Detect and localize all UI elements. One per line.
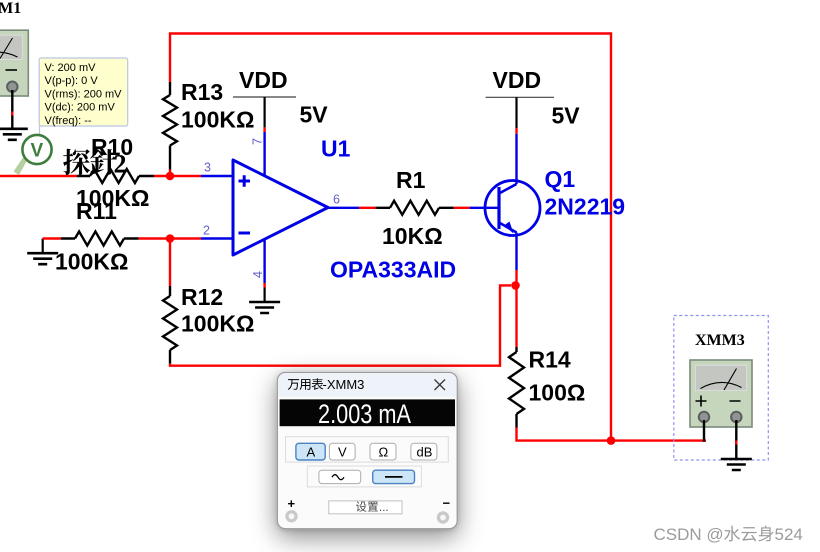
svg-text:100Ω: 100Ω bbox=[529, 380, 586, 406]
XMM3 selection box bbox=[674, 316, 769, 461]
svg-text:...: ... bbox=[379, 502, 389, 514]
watermark CSDN bbox=[654, 525, 803, 544]
node junction dot R11/R12 bbox=[166, 234, 175, 243]
dialog display 2.003 mA bbox=[280, 399, 455, 426]
ground at R11 left bbox=[42, 239, 44, 254]
svg-text:V: 200 mV: V: 200 mV bbox=[45, 62, 97, 74]
power VDD bar (op-amp) bbox=[233, 96, 296, 98]
svg-text:V: V bbox=[31, 141, 44, 162]
button V bbox=[329, 443, 355, 460]
button dB bbox=[411, 443, 437, 460]
svg-text:dB: dB bbox=[417, 445, 433, 460]
wire op-amp pin2 bbox=[201, 237, 233, 239]
svg-text:2.003 mA: 2.003 mA bbox=[318, 399, 411, 429]
wire R12 bottom to Q1 emitter node bbox=[170, 285, 511, 365]
wire op-amp pin3 bbox=[201, 175, 233, 177]
svg-text:7: 7 bbox=[251, 138, 265, 145]
svg-text:6: 6 bbox=[333, 193, 340, 207]
label probe name 探针2 bbox=[63, 149, 126, 179]
node junction dot emitter bbox=[511, 281, 520, 290]
resistor R12 bbox=[163, 239, 177, 364]
resistor R11 bbox=[43, 232, 201, 246]
dialog mode group bbox=[286, 437, 449, 462]
svg-text:VDD: VDD bbox=[493, 67, 542, 93]
svg-text:2: 2 bbox=[203, 224, 210, 238]
dialog signal group bbox=[307, 466, 421, 487]
svg-text:V: V bbox=[338, 445, 347, 460]
svg-text:R1: R1 bbox=[396, 167, 426, 193]
power VDD bar (Q1 collector) bbox=[486, 96, 554, 98]
node junction dot R10/R13 bbox=[166, 172, 175, 181]
multimeter XMM1 body (partially off-canvas) bbox=[0, 30, 28, 96]
svg-text:524: 524 bbox=[775, 525, 803, 544]
svg-text:V(p-p): 0 V: V(p-p): 0 V bbox=[45, 75, 99, 87]
button A (selected) bbox=[296, 443, 325, 460]
wire op-amp pin4 to ground bbox=[263, 239, 265, 302]
svg-text:100KΩ: 100KΩ bbox=[181, 107, 254, 133]
svg-text:R13: R13 bbox=[181, 79, 223, 105]
button AC bbox=[319, 470, 361, 483]
svg-text:5V: 5V bbox=[552, 103, 581, 129]
svg-text:R10: R10 bbox=[91, 134, 133, 160]
svg-text:XMM3: XMM3 bbox=[695, 332, 745, 349]
wire Q1 base bbox=[470, 207, 499, 209]
svg-text:2N2219: 2N2219 bbox=[545, 194, 626, 220]
svg-text:VDD: VDD bbox=[239, 67, 288, 93]
svg-text:V(dc): 200 mV: V(dc): 200 mV bbox=[45, 102, 116, 114]
svg-text:V(freq): --: V(freq): -- bbox=[45, 115, 92, 127]
wire XMM3 - terminal to ground bbox=[735, 420, 737, 459]
ground (op-amp pin4) bbox=[249, 302, 280, 313]
button Ohm bbox=[370, 443, 396, 460]
multimeter XMM3 body bbox=[690, 360, 752, 427]
resistor R13 bbox=[163, 82, 177, 176]
svg-text:+: + bbox=[288, 496, 296, 511]
svg-text:R12: R12 bbox=[181, 284, 223, 310]
instrument dialog 万用表-XMM3 bbox=[277, 373, 457, 529]
node junction dot bottom rail bbox=[607, 436, 616, 445]
wire op-amp pin6 output bbox=[328, 207, 359, 209]
probe measurement tooltip bbox=[39, 58, 128, 127]
svg-text:2: 2 bbox=[114, 150, 127, 179]
svg-text:3: 3 bbox=[204, 161, 211, 175]
svg-text:10KΩ: 10KΩ bbox=[382, 223, 443, 249]
resistor R1 bbox=[359, 201, 470, 215]
button DC (selected) bbox=[373, 470, 415, 483]
svg-text:R14: R14 bbox=[529, 347, 571, 373]
svg-text:100KΩ: 100KΩ bbox=[181, 311, 254, 337]
svg-text:V(rms): 200 mV: V(rms): 200 mV bbox=[45, 88, 123, 100]
svg-text:CSDN @: CSDN @ bbox=[654, 525, 724, 544]
dialog settings button 设置... bbox=[329, 501, 402, 514]
svg-text:A: A bbox=[307, 445, 316, 460]
svg-text:XMM1: XMM1 bbox=[0, 0, 21, 17]
svg-text:-XMM3: -XMM3 bbox=[323, 377, 365, 392]
svg-text:R11: R11 bbox=[76, 198, 117, 224]
wire Q1 collector supply bbox=[515, 97, 517, 184]
wire VDD-rail top loop from R13 top to right vertical down to bottom node bbox=[170, 34, 611, 441]
wire XMM3 + terminal bbox=[703, 420, 705, 442]
probe 探针2 voltage probe icon bbox=[14, 135, 52, 175]
svg-text:5V: 5V bbox=[300, 102, 329, 128]
resistor R10 bbox=[77, 169, 201, 183]
resistor R14 bbox=[509, 285, 706, 440]
transistor Q1 bbox=[485, 181, 540, 286]
dialog terminal jacks bbox=[285, 510, 297, 522]
wire XMM1 - terminal to ground bbox=[11, 90, 13, 129]
wire left input net to probe / R10 left bbox=[0, 175, 77, 177]
probe tooltip connector bbox=[39, 126, 41, 142]
svg-text:OPA333AID: OPA333AID bbox=[330, 257, 456, 283]
wire op-amp pin7 supply bbox=[264, 97, 266, 177]
op-amp U1 triangle bbox=[233, 160, 328, 255]
svg-text:Q1: Q1 bbox=[545, 166, 576, 192]
ground (XMM1) bbox=[0, 129, 28, 140]
svg-text:4: 4 bbox=[251, 271, 265, 278]
svg-text:100KΩ: 100KΩ bbox=[55, 249, 128, 275]
dialog close button bbox=[435, 380, 446, 391]
svg-text:U1: U1 bbox=[321, 136, 351, 162]
svg-text:Ω: Ω bbox=[379, 445, 389, 460]
ground (XMM3) bbox=[721, 459, 752, 470]
svg-text:−: − bbox=[443, 496, 451, 511]
